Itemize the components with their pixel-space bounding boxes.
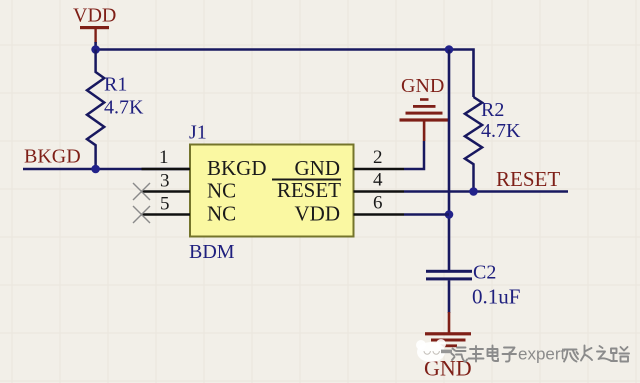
power port GND (top) symbol xyxy=(400,98,449,141)
svg-text:BDM: BDM xyxy=(189,241,235,263)
pin 5 xyxy=(142,213,191,216)
wire VDD stem xyxy=(94,42,97,50)
junction R2/RESET xyxy=(469,187,478,196)
no-connect X pin 3 xyxy=(133,183,150,200)
in-box pin name RESET with overline xyxy=(272,178,341,202)
watermark text expert xyxy=(518,345,566,364)
wire pin2 to GND port xyxy=(404,141,424,169)
pin number 5 xyxy=(160,194,170,215)
watermark text 汽车电子 xyxy=(452,346,517,363)
resistor R2 xyxy=(465,97,482,192)
svg-text:BKGD: BKGD xyxy=(24,146,81,168)
svg-text:4.7K: 4.7K xyxy=(104,97,144,119)
pin 3 xyxy=(142,190,191,193)
svg-text:6: 6 xyxy=(373,193,383,214)
label C2 xyxy=(473,262,496,284)
pin number 1 xyxy=(159,147,169,168)
svg-text:1: 1 xyxy=(159,147,169,168)
pin 4 xyxy=(354,190,405,193)
svg-text:NC: NC xyxy=(207,179,236,203)
in-box pin name VDD xyxy=(295,202,341,226)
watermark text 成长之路 xyxy=(564,346,629,362)
svg-text:GND: GND xyxy=(295,156,341,180)
svg-text:J1: J1 xyxy=(189,122,207,144)
wire pin6 to vertical xyxy=(404,213,449,216)
label BDM xyxy=(189,241,235,263)
resistor R1 xyxy=(87,50,104,170)
pin 6 xyxy=(354,213,405,216)
svg-text:VDD: VDD xyxy=(295,202,341,226)
svg-text:3: 3 xyxy=(160,171,170,192)
pin number 3 xyxy=(160,171,170,192)
capacitor C2 xyxy=(426,270,472,313)
power port GND (bottom) symbol xyxy=(425,312,471,347)
svg-text:4: 4 xyxy=(373,170,383,191)
value 4.7K (R1) xyxy=(104,97,144,119)
svg-text:RESET: RESET xyxy=(277,178,341,202)
pin 2 xyxy=(354,168,405,171)
in-box pin name NC (pin 3) xyxy=(207,179,236,203)
svg-text:VDD: VDD xyxy=(73,5,116,27)
value 0.1uF xyxy=(472,285,520,309)
junction at top rail / vertical wire xyxy=(445,45,454,54)
svg-text:GND: GND xyxy=(401,75,444,97)
no-connect X pin 5 xyxy=(133,206,150,223)
svg-text:4.7K: 4.7K xyxy=(481,120,521,142)
svg-text:0.1uF: 0.1uF xyxy=(472,285,520,309)
in-box pin name GND xyxy=(295,156,341,180)
pin number 4 xyxy=(373,170,383,191)
connector J1 body xyxy=(190,145,354,237)
junction BKGD/R1 xyxy=(91,165,100,174)
designator J1 xyxy=(189,122,207,144)
svg-text:2: 2 xyxy=(373,147,383,168)
pin 1 xyxy=(142,168,191,171)
svg-text:C2: C2 xyxy=(473,262,496,284)
wire RESET xyxy=(404,190,568,193)
net label RESET xyxy=(496,167,560,191)
pin number 2 xyxy=(373,147,383,168)
watermark logo xyxy=(416,339,452,362)
svg-text:R2: R2 xyxy=(481,99,504,121)
svg-text:5: 5 xyxy=(160,194,170,215)
svg-text:RESET: RESET xyxy=(496,167,560,191)
in-box pin name NC (pin 5) xyxy=(207,202,236,226)
power port VDD bar symbol xyxy=(80,26,109,43)
power port VDD label xyxy=(73,5,116,27)
in-box pin name BKGD xyxy=(207,156,267,180)
wire BKGD xyxy=(23,168,190,171)
wire top VDD rail xyxy=(96,50,474,98)
svg-text:NC: NC xyxy=(207,202,236,226)
power port GND (bottom) label xyxy=(424,356,472,381)
value 4.7K (R2) xyxy=(481,120,521,142)
wire vertical VDD to C2 xyxy=(448,50,451,272)
pin number 6 xyxy=(373,193,383,214)
label R1 xyxy=(104,74,127,96)
svg-text:BKGD: BKGD xyxy=(207,156,267,180)
junction pin6/vertical wire xyxy=(445,210,454,219)
junction at VDD/R1 xyxy=(91,45,100,54)
net label BKGD xyxy=(24,146,81,168)
power port GND (top) label xyxy=(401,75,444,97)
svg-text:expert: expert xyxy=(518,345,566,364)
label R2 xyxy=(481,99,504,121)
svg-text:R1: R1 xyxy=(104,74,127,96)
